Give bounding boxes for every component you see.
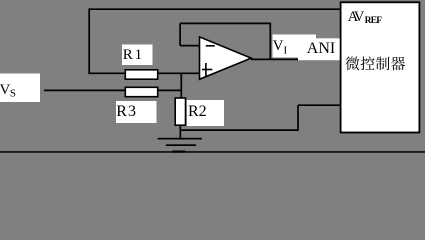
wire: R1 rail into op-amp + input bbox=[88, 72, 199, 74]
wire: op-amp output to MCU ANI bbox=[251, 58, 341, 60]
label box Vs (white) bbox=[0, 74, 40, 103]
wire: feedback right vertical down to output bbox=[269, 23, 271, 60]
wire: R2 bottom stem to ground bbox=[179, 125, 181, 139]
op-amp inverting (-) sign bbox=[206, 45, 215, 47]
svg-text:ANI: ANI bbox=[307, 40, 335, 57]
text char 控 (kong) of 微控制器 bbox=[361, 57, 375, 71]
wire: feedback left vertical bbox=[179, 23, 181, 45]
label box R3 (white) bbox=[116, 101, 157, 123]
label box VI (white) bbox=[273, 35, 317, 58]
wire: Vs to R3 to junction bbox=[44, 89, 182, 91]
wire: right step vertical bbox=[297, 105, 299, 131]
MCU box 微控制器 bbox=[341, 2, 420, 132]
resistor R2 body bbox=[175, 98, 185, 125]
svg-text:R2: R2 bbox=[188, 103, 207, 120]
resistor R3 body bbox=[125, 87, 157, 96]
svg-text:R1: R1 bbox=[123, 47, 144, 63]
svg-text:V: V bbox=[273, 38, 284, 54]
wire: step run into MCU box bottom-left bbox=[298, 104, 341, 106]
svg-text:R3: R3 bbox=[116, 103, 137, 120]
resistor R1 body bbox=[125, 70, 157, 79]
text char 制 (zhi) of 微控制器 bbox=[376, 57, 390, 71]
svg-text:S: S bbox=[10, 87, 16, 99]
wire: left frame vertical bbox=[88, 8, 90, 73]
wire: AVref top rail from left frame to MCU box bbox=[89, 8, 340, 10]
wire: bottom run from ground stem to the right bbox=[180, 129, 298, 131]
svg-text:I: I bbox=[284, 44, 288, 56]
label box R1 (white) bbox=[122, 45, 153, 66]
op-amp U1 triangle bbox=[200, 37, 252, 79]
ground bbox=[158, 138, 202, 153]
wire: inverting input stub bbox=[180, 45, 199, 47]
label box ANI (white) bbox=[298, 38, 340, 60]
label box R2 (white) bbox=[187, 100, 224, 126]
op-amp non-inverting (+) sign bbox=[202, 63, 212, 76]
text char 微 (wei) of 微控制器 bbox=[345, 57, 359, 71]
wire: junction vertical down to R2 bbox=[180, 73, 182, 98]
wire: feedback top run bbox=[180, 22, 270, 24]
text char 器 (qi) of 微控制器 bbox=[391, 57, 405, 70]
svg-text:REF: REF bbox=[365, 16, 383, 26]
